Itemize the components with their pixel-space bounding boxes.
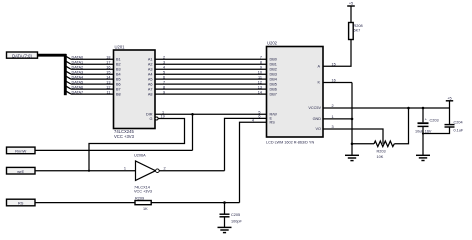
- svg-text:R209: R209: [135, 197, 144, 201]
- node RnnW label: [7, 147, 36, 154]
- wire R208 to +5: [350, 6, 352, 23]
- svg-text:12: 12: [258, 80, 262, 84]
- resistor R203: [374, 141, 394, 159]
- svg-text:RnnW: RnnW: [15, 149, 26, 154]
- svg-text:DATA5: DATA5: [72, 80, 84, 84]
- svg-text:DIR: DIR: [146, 113, 153, 117]
- capacitor C205: [220, 203, 243, 228]
- resistor R208: [349, 23, 363, 40]
- svg-text:VCC +3V3: VCC +3V3: [134, 190, 152, 194]
- svg-text:R203: R203: [377, 150, 386, 154]
- node RS label: [7, 199, 36, 206]
- svg-text:DATA0: DATA0: [72, 56, 84, 60]
- svg-text:+5: +5: [349, 2, 353, 6]
- svg-text:B7: B7: [116, 87, 121, 91]
- wire DATA7 branch: [66, 91, 113, 94]
- node junction DIR/RnW: [191, 113, 194, 116]
- wire bus vertical: [64, 54, 67, 95]
- wire A5 to DB4: [155, 78, 267, 80]
- capacitor C204: [423, 108, 464, 134]
- svg-text:5: 5: [163, 70, 165, 74]
- node wrE label: [7, 167, 36, 174]
- node DATA(7:0) bus label: [7, 52, 38, 58]
- ground (under C203): [416, 155, 430, 160]
- svg-text:1: 1: [332, 115, 334, 119]
- wire A7 to DB6: [155, 88, 267, 90]
- wire DATA6 branch: [66, 86, 113, 89]
- wire K pin down to ground: [323, 82, 352, 84]
- svg-text:2: 2: [332, 104, 334, 108]
- svg-text:A7: A7: [148, 87, 153, 91]
- wire RS to R209: [35, 202, 135, 204]
- svg-text:DATA6: DATA6: [72, 85, 84, 89]
- svg-text:12: 12: [106, 85, 110, 89]
- svg-text:100pF: 100pF: [231, 219, 242, 223]
- wire A4 to DB3: [155, 73, 267, 75]
- svg-text:4: 4: [252, 118, 254, 122]
- svg-text:U206A: U206A: [134, 154, 146, 158]
- wire R203 right lead to rail: [394, 108, 408, 144]
- wire bus horizontal: [38, 54, 67, 57]
- svg-text:19: 19: [161, 115, 165, 119]
- inverter U206A 74LCX14: [124, 154, 166, 194]
- svg-text:4: 4: [163, 65, 165, 69]
- svg-text:VO: VO: [316, 127, 322, 131]
- svg-text:GND: GND: [313, 117, 322, 121]
- svg-text:+5: +5: [447, 97, 451, 101]
- svg-text:3: 3: [163, 60, 165, 64]
- wire A1 to DB0: [155, 58, 267, 60]
- svg-text:7: 7: [163, 80, 165, 84]
- svg-text:A3: A3: [148, 67, 153, 71]
- node junction rail/C203: [422, 107, 425, 110]
- wire inverter out to E: [225, 118, 267, 170]
- wire K vertical: [351, 83, 353, 156]
- svg-text:6: 6: [258, 115, 260, 119]
- svg-text:10: 10: [258, 70, 262, 74]
- svg-text:DATA3: DATA3: [72, 71, 84, 75]
- svg-text:LCD LWM 1602 R-863/D YN: LCD LWM 1602 R-863/D YN: [266, 141, 314, 145]
- svg-text:U202: U202: [267, 41, 278, 46]
- node junction rail/R203: [407, 107, 410, 110]
- wire VCC5V rail: [323, 107, 450, 109]
- wire DATA0 branch: [66, 57, 113, 60]
- svg-text:15: 15: [332, 62, 336, 66]
- svg-text:6K7: 6K7: [354, 29, 361, 33]
- svg-text:U201: U201: [115, 45, 126, 50]
- svg-text:8: 8: [163, 85, 165, 89]
- node junction GND pin: [351, 118, 354, 121]
- wire A8 to DB7: [155, 93, 267, 95]
- svg-text:8: 8: [260, 60, 262, 64]
- svg-text:18: 18: [106, 56, 110, 60]
- svg-text:C205: C205: [231, 213, 240, 217]
- svg-text:A1: A1: [148, 58, 153, 62]
- wire DIR to R/W: [155, 113, 267, 115]
- svg-text:14: 14: [106, 75, 110, 79]
- wire RnnW: [35, 149, 193, 151]
- svg-text:9: 9: [260, 65, 262, 69]
- wire DATA1 branch: [66, 61, 113, 64]
- svg-text:11: 11: [258, 75, 262, 79]
- ground (under K): [345, 155, 359, 160]
- wire wrE: [35, 170, 136, 172]
- svg-text:DB4: DB4: [270, 77, 277, 81]
- svg-text:DATA (7:0): DATA (7:0): [12, 53, 32, 58]
- node junction RS/C205: [223, 201, 226, 204]
- resistor R209: [135, 197, 151, 211]
- svg-text:C204: C204: [454, 121, 463, 125]
- svg-text:C203: C203: [430, 118, 439, 122]
- wire G loop: [89, 119, 185, 171]
- svg-text:DB2: DB2: [270, 67, 277, 71]
- wire RS vertical: [240, 122, 267, 202]
- svg-text:DB1: DB1: [270, 62, 277, 66]
- svg-text:VCC +3V3: VCC +3V3: [114, 134, 135, 139]
- svg-text:0.1uF: 0.1uF: [454, 129, 464, 133]
- svg-text:B5: B5: [116, 77, 121, 81]
- wire R209 to RS pin: [151, 202, 239, 204]
- svg-text:VCC5V: VCC5V: [308, 106, 321, 110]
- svg-text:13: 13: [106, 80, 110, 84]
- svg-text:15: 15: [106, 70, 110, 74]
- svg-text:A6: A6: [148, 82, 153, 86]
- svg-text:DB5: DB5: [270, 82, 277, 86]
- svg-text:DATA7: DATA7: [72, 90, 84, 94]
- svg-text:R208: R208: [354, 24, 363, 28]
- node junction wrE/G: [88, 170, 90, 172]
- svg-text:wrE: wrE: [17, 169, 24, 174]
- wire A3 to DB2: [155, 68, 267, 70]
- svg-text:17: 17: [106, 60, 110, 64]
- svg-text:A4: A4: [148, 72, 153, 76]
- svg-text:DATA2: DATA2: [72, 66, 84, 70]
- svg-text:DATA1: DATA1: [72, 61, 84, 65]
- wire A pin to R208: [323, 40, 351, 67]
- svg-text:B4: B4: [116, 72, 121, 76]
- wire VO pin: [323, 129, 383, 144]
- svg-text:10K: 10K: [377, 155, 384, 159]
- svg-text:DB0: DB0: [270, 58, 277, 62]
- svg-text:A8: A8: [148, 92, 153, 96]
- svg-text:A2: A2: [148, 62, 153, 66]
- buffer U201 74LCX245: [114, 45, 159, 139]
- wire GND pin: [323, 118, 352, 120]
- power +5 (right): [446, 97, 453, 101]
- svg-text:13: 13: [258, 85, 262, 89]
- wire DATA3 branch: [66, 71, 113, 74]
- wire A2 to DB1: [155, 63, 267, 65]
- wire DATA4 branch: [66, 76, 113, 79]
- wire R203 left lead: [352, 143, 374, 145]
- svg-text:6: 6: [163, 75, 165, 79]
- wire RnW vertical: [192, 114, 194, 150]
- svg-text:16: 16: [106, 65, 110, 69]
- svg-text:DB7: DB7: [270, 92, 277, 96]
- svg-text:A5: A5: [148, 77, 153, 81]
- svg-text:14: 14: [258, 90, 262, 94]
- svg-text:1K: 1K: [143, 207, 148, 211]
- svg-text:11: 11: [107, 90, 111, 94]
- svg-text:RS: RS: [18, 201, 24, 206]
- svg-text:DB6: DB6: [270, 87, 277, 91]
- node junction C203/C204: [422, 132, 424, 134]
- wire A6 to DB5: [155, 83, 267, 85]
- capacitor C203: [415, 108, 439, 155]
- svg-text:9: 9: [163, 90, 165, 94]
- svg-text:DB3: DB3: [270, 72, 277, 76]
- svg-text:3: 3: [332, 125, 334, 129]
- wire DATA5 branch: [66, 81, 113, 84]
- svg-text:74LCX14: 74LCX14: [134, 185, 150, 189]
- svg-text:7: 7: [260, 56, 262, 60]
- svg-text:RS: RS: [270, 121, 276, 125]
- wire inverter output: [159, 170, 224, 172]
- power +5 (top): [347, 2, 355, 6]
- ground (under C205): [218, 227, 232, 232]
- wire rail to +5: [449, 101, 451, 108]
- wire DATA2 branch: [66, 66, 113, 69]
- svg-text:B1: B1: [116, 58, 121, 62]
- svg-text:B6: B6: [116, 82, 121, 86]
- svg-text:1: 1: [124, 167, 126, 171]
- connector U202 LCD: [266, 41, 323, 145]
- svg-text:B8: B8: [116, 92, 121, 96]
- svg-text:DATA4: DATA4: [72, 75, 84, 79]
- svg-text:G: G: [150, 117, 153, 121]
- svg-text:2: 2: [163, 56, 165, 60]
- svg-text:B2: B2: [116, 62, 121, 66]
- node junction R203 left: [351, 143, 354, 146]
- svg-text:B3: B3: [116, 67, 121, 71]
